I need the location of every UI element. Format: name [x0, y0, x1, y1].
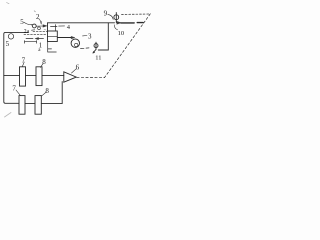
jet 6 triangle [64, 72, 77, 82]
box 1 lower foot [48, 42, 57, 53]
box 7 row2 [19, 96, 25, 115]
cluster small circle b [38, 27, 41, 30]
svg-text:10: 10 [118, 30, 125, 37]
nozzle 11 spray arrow [93, 50, 96, 53]
windshield diagonal dashed edge [105, 14, 151, 78]
scan speck top [34, 11, 35, 12]
wire riser down to nozzle 11 [98, 23, 108, 50]
stack dashed line [24, 34, 47, 36]
svg-text:2a: 2a [24, 29, 30, 35]
svg-text:8: 8 [42, 58, 46, 66]
wire box1 to pump 3 [58, 37, 73, 39]
cluster link wire [36, 25, 43, 27]
svg-text:3: 3 [88, 32, 92, 40]
nozzle 11 symbol circle [94, 44, 98, 48]
label 5 top leader [24, 22, 32, 24]
svg-text:11: 11 [95, 54, 101, 61]
cluster dashed pipe [33, 30, 47, 32]
label 7 row1 leader [22, 62, 24, 67]
pump 3 inner circle [75, 43, 78, 46]
svg-text:6: 6 [76, 63, 80, 71]
svg-text:5: 5 [6, 40, 10, 48]
row2 wire mid [25, 102, 35, 104]
row1 wire mid [26, 74, 37, 76]
nozzle 10 spray line [121, 22, 143, 24]
nozzle 11 spray dashes [81, 47, 90, 50]
stack line mid with left arrow [38, 38, 43, 40]
stack line mid-left [26, 37, 33, 39]
loop component 5 [8, 34, 13, 39]
cluster tick under 2 [40, 22, 42, 25]
box 8 row2 [35, 96, 41, 115]
scan smudge bottom left [5, 113, 12, 118]
pump 3 outer circle [71, 39, 79, 47]
cluster small circle a [32, 24, 36, 28]
svg-text:4: 4 [67, 24, 71, 31]
wire left riser to box 1 [47, 23, 49, 32]
pump 3 inlet arrow [71, 36, 75, 39]
svg-text:8: 8 [45, 87, 49, 95]
scan speck corner [7, 3, 10, 4]
label 7 row2 leader [16, 90, 20, 95]
svg-text:2: 2 [36, 13, 40, 21]
nozzle 9 stem [115, 13, 117, 23]
nozzle 10 arrow head [117, 21, 122, 24]
wire top main [48, 22, 115, 24]
label 4 leader [59, 25, 65, 27]
row1 wire right [42, 74, 64, 76]
label 2a leader [32, 29, 35, 31]
svg-text:7: 7 [12, 85, 16, 93]
left outer wire top [4, 32, 28, 103]
stack bottom line [25, 41, 37, 44]
label 8 row2 leader [42, 92, 47, 96]
label 2 leader [39, 19, 41, 23]
nozzle 9 circle [114, 15, 119, 20]
svg-text:5: 5 [20, 18, 24, 26]
box 1 internal line [48, 25, 58, 37]
label 9 leader [108, 14, 113, 19]
windshield bottom dashed edge / spray path of 6 [77, 76, 105, 78]
box 7 row1 [20, 67, 26, 86]
row2 wire right [41, 102, 62, 104]
windshield top dashed edge [122, 13, 150, 15]
label 10 leader [114, 25, 117, 30]
label 6 leader [72, 69, 77, 73]
box 8 row1 [36, 67, 42, 86]
wire triangle drop [61, 82, 63, 104]
svg-text:7: 7 [22, 56, 26, 64]
svg-text:9: 9 [104, 10, 108, 18]
nozzle 11 stem [95, 42, 97, 49]
label 3 leader [83, 35, 88, 37]
label 8 row1 leader [40, 63, 43, 67]
row1 wire left [4, 74, 20, 76]
box 1 (valve unit) [48, 31, 58, 42]
cluster arrow into box [43, 25, 47, 28]
cluster faint marks [31, 25, 46, 30]
